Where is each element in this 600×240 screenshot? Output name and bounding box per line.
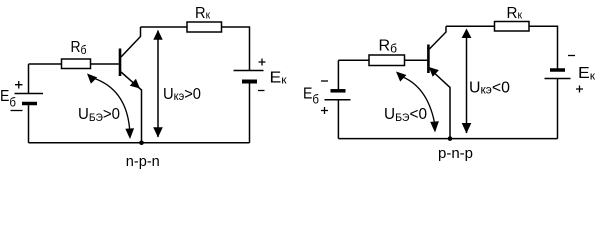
battery Eb plus sign xyxy=(15,81,23,89)
resistor Rb (right circuit) xyxy=(369,55,405,66)
Ube lower arrowhead xyxy=(430,121,439,132)
battery Ek plus sign xyxy=(259,59,266,66)
wire: top-left horizontal from corner to Rb xyxy=(338,59,369,61)
node dot at emitter junction xyxy=(448,136,453,141)
battery Eb minus sign xyxy=(11,110,23,112)
Uke top arrowhead xyxy=(462,29,472,39)
transistor VT1 collector lead xyxy=(121,27,141,57)
Uke arrow line (double headed vertical) xyxy=(157,31,159,138)
wire: top rail from collector to Rk xyxy=(446,25,495,27)
Ube lower arrowhead xyxy=(125,128,134,139)
battery Ek short plate (-) xyxy=(242,80,257,84)
resistor Rb (left circuit) xyxy=(62,59,91,69)
wire: left vertical from corner down to battery Eb xyxy=(28,64,30,93)
Ube upper arrowhead xyxy=(87,74,97,84)
transistor VT1 base bar xyxy=(119,49,122,77)
wire: battery Ek down to bottom rail xyxy=(557,79,559,139)
svg-text:n-p-n: n-p-n xyxy=(126,153,160,170)
battery Eb long plate (+) xyxy=(15,93,44,95)
Ube curved arrow (arc) xyxy=(399,76,435,124)
Uke top arrowhead xyxy=(153,30,162,40)
transistor VT2 emitter arrow (pnp, pointing in) xyxy=(429,67,439,77)
transistor VT2 base bar xyxy=(427,45,430,74)
resistor Rk (left circuit) xyxy=(187,22,222,32)
battery Ek minus sign xyxy=(258,90,265,92)
bottom rail xyxy=(338,138,557,140)
battery Eb minus sign xyxy=(321,80,328,82)
wire: battery Ek down to bottom rail xyxy=(249,84,251,143)
resistor Rk (right circuit) xyxy=(495,22,530,32)
battery Ek short plate (-) xyxy=(550,68,565,72)
battery Eb short plate (-) xyxy=(331,89,346,93)
bottom rail xyxy=(29,142,250,144)
wire: Rb to transistor base xyxy=(405,59,428,61)
Uke bottom arrowhead xyxy=(462,123,472,134)
Ube curved arrow (arc) xyxy=(90,77,130,130)
wire: Rk to right top corner and down to battery Ek xyxy=(529,26,558,68)
Uke bottom arrowhead xyxy=(153,127,163,137)
wire: Rk to right top corner and down to battery Ek xyxy=(222,27,250,71)
battery Ek long plate (+) xyxy=(545,78,571,80)
battery Ek plus sign xyxy=(576,86,583,93)
Uke arrow line (double headed vertical) xyxy=(466,30,468,133)
wire: battery Eb down to bottom rail xyxy=(28,105,30,143)
transistor VT2 collector lead xyxy=(429,26,446,49)
Ube upper arrowhead xyxy=(396,72,406,82)
battery Ek minus sign xyxy=(568,55,575,57)
wire: top-left horizontal from corner to Rb xyxy=(29,63,62,65)
node dot at emitter junction xyxy=(139,141,144,146)
wire: battery Eb down to bottom rail xyxy=(337,100,339,138)
svg-text:Uкэ>0: Uкэ>0 xyxy=(163,86,201,103)
wire: left vertical from corner down to battery Eb xyxy=(337,60,339,89)
wire: top rail from collector to Rk xyxy=(141,26,188,28)
transistor VT2 emitter lead xyxy=(429,68,450,139)
battery Eb short plate (-) xyxy=(22,102,37,106)
battery Eb long plate (+) xyxy=(325,99,351,101)
svg-text:p-n-p: p-n-p xyxy=(438,145,473,162)
transistor VT1 emitter arrow (npn, pointing out) xyxy=(130,79,140,89)
svg-text:Uкэ<0: Uкэ<0 xyxy=(469,80,510,97)
wire: Rb to transistor base xyxy=(91,63,119,65)
battery Ek long plate (+) xyxy=(234,70,264,72)
battery Eb plus sign xyxy=(321,107,328,114)
transistor VT1 emitter lead xyxy=(121,72,142,143)
